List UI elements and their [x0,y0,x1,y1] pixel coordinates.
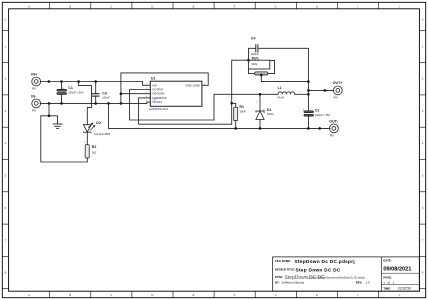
svg-text:100nF: 100nF [251,52,259,56]
svg-text:A: A [28,4,30,8]
svg-text:PIN: PIN [334,97,338,100]
node C1 top [60,80,63,83]
svg-text:100nF: 100nF [102,95,110,99]
node C3 bottom [94,102,97,105]
svg-text:D2: D2 [96,121,101,125]
svg-text:R1: R1 [239,105,244,109]
connector IN+ [31,73,40,91]
inductor L1 [273,86,301,99]
svg-text:PAGE:: PAGE: [383,275,392,279]
svg-text:R2: R2 [92,145,97,149]
ruler ticks left [2,30,8,288]
svg-text:C3: C3 [102,91,107,95]
node on VIN rail x48.8 [48,80,51,83]
ruler ticks top [50,2,379,9]
connector OUT+ [333,81,343,99]
svg-text:GROUND: GROUND [152,92,164,96]
LED D2 [83,111,110,145]
svg-text:1 of 1: 1 of 1 [383,281,394,285]
svg-text:PIN: PIN [32,110,36,113]
title block outline [273,257,420,291]
svg-text:47uH: 47uH [277,95,283,99]
svg-text:C1: C1 [68,86,73,90]
resistor R1 [232,103,246,128]
svg-text:StepDown Dc DC.pdsprj: StepDown Dc DC.pdsprj [295,259,355,265]
svg-text:09/08/2021: 09/08/2021 [383,267,411,273]
wire GND rail (IN-) [40,102,150,103]
node rail drop to bottom [107,102,110,105]
svg-text:VIN: VIN [152,83,157,87]
svg-text:PIN: PIN [330,135,334,138]
wire U1 GND_(TAB) loop [121,73,208,104]
svg-text:PIN: PIN [32,88,36,91]
node SW to VOUT vertical [307,93,310,96]
svg-text:G: G [275,293,277,297]
node ground drop [48,102,51,105]
node C1 bottom [60,102,63,105]
node D1 bottom [259,127,262,130]
svg-text:Step Down DC DC: Step Down DC DC [296,268,341,274]
node R1 top / feedback [230,102,233,105]
svg-text:D: D [151,293,153,297]
ruler numbers left [5,17,7,274]
wire U1 pin3 GROUND [121,93,150,95]
svg-text:IN+: IN+ [31,73,37,77]
ruler letters top [28,4,400,8]
capacitor C4 [249,37,309,111]
connector IN- [31,95,40,113]
svg-text:(C:\Users\Jefferson\Documents\: (C:\Users\Jefferson\Documents\StepDown D… [307,276,366,279]
svg-text:FEEDBACK: FEEDBACK [152,96,167,100]
svg-text:SS34: SS34 [267,112,274,116]
ruler ticks bottom [50,291,379,298]
ruler letters bottom [28,293,400,297]
svg-text:L1: L1 [278,86,282,90]
node pin3/tab junction [120,92,123,95]
svg-text:C: C [110,293,112,297]
node GND tab vertical [120,102,123,105]
ruler ticks right [419,30,425,288]
svg-text:C: C [110,4,112,8]
svg-text:OUT-: OUT- [329,120,339,124]
svg-text:TIME:: TIME: [383,286,391,290]
svg-text:PATH:: PATH: [275,275,283,279]
wire U1 pin4 FEEDBACK [139,60,249,124]
svg-text:Led Azul 0805: Led Azul 0805 [94,132,111,136]
svg-text:A: A [28,293,30,297]
svg-text:REV:: REV: [356,281,363,285]
node R1 bottom [234,127,237,130]
svg-text:OUTPUT: OUTPUT [152,88,163,92]
wire bottom ground rail [109,103,331,128]
svg-text:2k2: 2k2 [92,150,97,154]
svg-text:100uF x 50V: 100uF x 50V [68,90,83,94]
svg-text:BY:: BY: [275,281,280,285]
TITLEBLOCK [273,257,420,291]
svg-text:C4: C4 [251,37,256,41]
wire D2 feed from VIN rail [79,82,92,125]
node C3 top [94,80,97,83]
node C4 left / RV1 [247,59,250,62]
node SW to D1 [259,93,262,96]
wire VIN top rail [40,82,150,86]
svg-text:Jefferson Bueno: Jefferson Bueno [282,281,305,285]
svg-text:LM2596S-ADJ: LM2596S-ADJ [149,107,169,111]
svg-text:1.0: 1.0 [366,281,371,285]
svg-text:100k: 100k [251,62,257,66]
svg-text:DATE:: DATE: [383,259,391,263]
connector OUT- [329,120,339,138]
svg-text:H: H [316,293,318,297]
svg-text:E: E [193,4,195,8]
svg-text:22:02:59: 22:02:59 [398,286,411,290]
svg-text:ON/OFF: ON/OFF [152,100,163,104]
title block divider [380,257,382,291]
ruler numbers right [422,17,424,274]
resistor R2 [85,145,96,158]
svg-text:300R: 300R [239,110,245,114]
capacitor C1 [57,82,84,104]
svg-text:OUT+: OUT+ [333,81,343,85]
svg-text:FILE NAME:: FILE NAME: [275,259,291,263]
svg-text:IN-: IN- [31,95,37,99]
wire U1 pin2 OUTPUT to SW [130,90,278,121]
svg-text:B: B [69,4,71,8]
diode D1 (SS34) [255,94,274,128]
svg-text:B: B [69,293,71,297]
svg-text:RV1: RV1 [252,57,259,61]
node OUT+ branch [307,89,310,92]
svg-text:GND_(TAB): GND_(TAB) [186,83,200,87]
svg-text:H: H [316,4,318,8]
wire R2 return loop [41,116,88,162]
svg-text:E: E [193,293,195,297]
svg-text:U1: U1 [151,77,156,81]
capacitor C2 [302,107,330,128]
svg-text:C2: C2 [315,109,320,113]
node D2 branch [77,80,80,83]
node C2 bottom [307,127,310,130]
svg-text:220uF x 35V: 220uF x 35V [315,113,330,117]
IC U1 box [146,77,207,112]
node OUT+ pin [324,89,327,92]
node wiper to VOUT vertical [307,80,310,83]
capacitor C3 [92,82,110,104]
trimmer RV1 [248,57,308,82]
svg-text:D1: D1 [267,108,272,112]
ground symbol [48,103,62,128]
node OUT- pin [318,127,321,130]
wire OUT+ [308,89,333,91]
svg-text:G: G [275,4,277,8]
svg-text:D: D [151,4,153,8]
svg-text:DESIGN TITLE:: DESIGN TITLE: [275,268,295,272]
